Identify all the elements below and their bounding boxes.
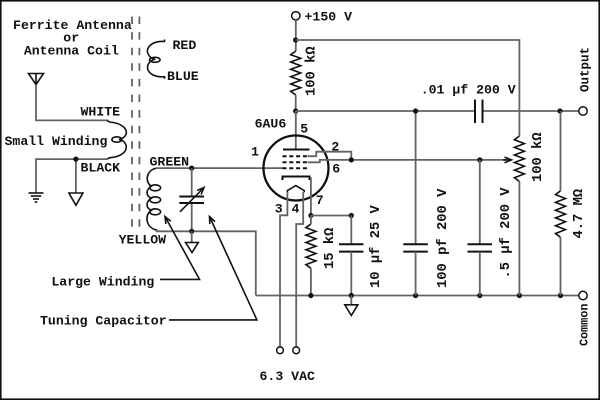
node tuning cap bottom: [189, 229, 194, 234]
capacitor C5 100 pf 200 V: [415, 111, 417, 244]
ferrite core dashed lines: [132, 17, 139, 233]
svg-text:5: 5: [300, 122, 308, 137]
antenna symbol: [29, 74, 44, 85]
svg-text:BLACK: BLACK: [81, 160, 121, 175]
svg-text:Common: Common: [578, 304, 592, 346]
wire pin 4: [296, 192, 303, 347]
large winding L3: [147, 168, 161, 231]
svg-text:.5 µf 200 V: .5 µf 200 V: [498, 187, 514, 279]
arrow to large winding: [160, 217, 200, 280]
svg-text:YELLOW: YELLOW: [119, 232, 167, 247]
node pin7 junction: [308, 213, 313, 218]
coil L2 RED/BLUE: [147, 40, 164, 79]
node rail C6: [477, 293, 482, 298]
svg-text:RED: RED: [173, 38, 197, 53]
capacitor C2 .01 uf 200 V: [476, 104, 482, 118]
wire R1 bottom to plate rail: [295, 95, 297, 111]
svg-text:100 kΩ: 100 kΩ: [530, 132, 546, 182]
svg-text:10 µf 25 V: 10 µf 25 V: [368, 204, 384, 288]
tube 6AU6 envelope: [264, 136, 329, 201]
svg-text:4: 4: [292, 202, 300, 217]
bottom rail: [256, 295, 579, 297]
svg-text:6: 6: [332, 161, 340, 176]
wire top rail to pot: [296, 40, 520, 136]
chassis ground (triangle): [69, 193, 83, 205]
svg-text:Antenna Coil: Antenna Coil: [24, 44, 119, 59]
svg-text:Tuning Capacitor: Tuning Capacitor: [40, 313, 167, 328]
terminal heater A: [277, 347, 284, 354]
earth ground: [29, 193, 44, 202]
pot wiper arrowhead: [503, 157, 512, 163]
node .5uf tap: [477, 157, 482, 162]
node L3 top / tuning cap: [189, 166, 194, 171]
node rail C5: [413, 293, 418, 298]
wire into tube pin 5: [295, 111, 297, 149]
wire stub to ground: [191, 231, 193, 242]
svg-text:WHITE: WHITE: [81, 105, 121, 120]
wire small winding bottom (BLACK): [36, 159, 108, 193]
terminal +150 V: [292, 12, 300, 20]
wire pin 7 down: [310, 178, 312, 216]
resistor R4 4.7 MOhm: [560, 111, 562, 191]
svg-text:4.7 MΩ: 4.7 MΩ: [572, 189, 587, 239]
tube plate: [283, 149, 310, 151]
node output junction: [557, 108, 562, 113]
wire pin7 to C4: [311, 215, 351, 217]
wire pin 6 to pot wiper: [308, 160, 506, 162]
tuning capacitor C1: [191, 168, 193, 196]
svg-text:Small Winding: Small Winding: [5, 134, 108, 149]
wire plate rail right: [296, 110, 579, 112]
node C4 top: [349, 213, 354, 218]
wire rail ground stub: [350, 296, 352, 305]
ground under tuning cap: [186, 243, 199, 253]
node rail pot: [517, 293, 522, 298]
capacitor C4 10 uf 25 V: [350, 216, 352, 245]
capacitor C6 .5 uf 200 V: [479, 160, 481, 244]
tube heater: [287, 186, 304, 193]
svg-text:+150 V: +150 V: [305, 9, 353, 24]
terminal Output: [579, 107, 587, 115]
terminal Common: [579, 291, 587, 299]
terminal heater B: [293, 347, 300, 354]
wire L3 top to tube pin 1: [156, 167, 283, 169]
wire pin 2: [308, 152, 352, 160]
svg-text:6AU6: 6AU6: [255, 117, 287, 132]
node rail R4: [558, 293, 563, 298]
svg-text:3: 3: [275, 202, 283, 217]
svg-text:100 kΩ: 100 kΩ: [304, 46, 320, 96]
tube grids (3 dashed rows): [283, 156, 308, 168]
wire pin 3: [280, 192, 287, 347]
svg-text:Output: Output: [579, 47, 593, 92]
node plate junction: [293, 108, 298, 113]
resistor R2 15 kOhm: [310, 216, 312, 225]
svg-text:.01 µf 200 V: .01 µf 200 V: [421, 82, 516, 97]
potentiometer R3 100 kOhm: [514, 136, 524, 182]
node BLACK junction: [73, 157, 78, 162]
label Ferrite Antenna / Antenna Coil: [13, 18, 132, 58]
svg-text:100 pf 200 V: 100 pf 200 V: [435, 188, 451, 288]
wire +150V down: [295, 20, 297, 51]
node C5 top: [413, 108, 418, 113]
svg-text:Large Winding: Large Winding: [51, 274, 154, 289]
resistor R1 100 kOhm: [291, 51, 301, 95]
wire antenna to small winding top (WHITE): [36, 85, 108, 121]
svg-text:7: 7: [316, 193, 324, 208]
tube cathode: [283, 177, 310, 181]
svg-text:15 kΩ: 15 kΩ: [322, 228, 338, 269]
node top rail junction: [293, 37, 298, 42]
svg-text:BLUE: BLUE: [167, 69, 199, 84]
wire branch to triangle ground: [75, 159, 77, 193]
wire L3 bottom rail (YELLOW): [156, 231, 256, 295]
ground at rail: [345, 305, 358, 316]
arrow to tuning capacitor: [169, 217, 257, 320]
node rail C4: [349, 293, 354, 298]
small winding L1: [107, 120, 126, 159]
svg-text:6.3 VAC: 6.3 VAC: [260, 369, 315, 384]
node pin2/6 join: [349, 157, 354, 162]
svg-text:1: 1: [251, 144, 259, 159]
node rail R2: [308, 293, 313, 298]
